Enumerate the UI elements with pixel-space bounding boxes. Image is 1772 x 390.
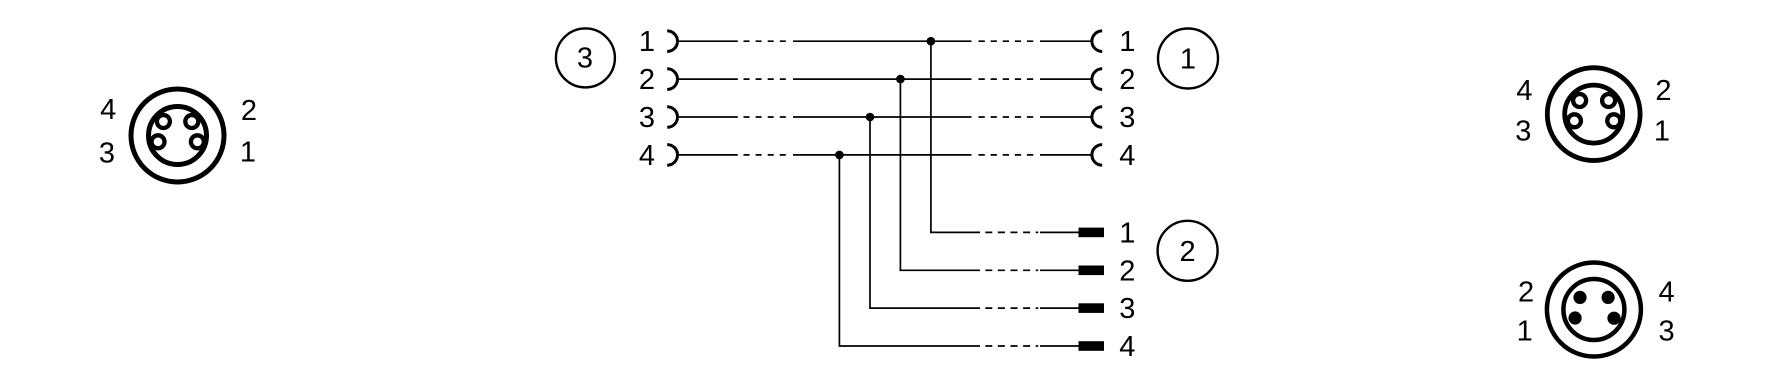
- end 3 pin 2 socket contact arc: [667, 69, 677, 90]
- wire 3.3: solid segment from contact: [678, 116, 738, 118]
- end 1 circled label: [1158, 29, 1218, 89]
- svg-text:2: 2: [1119, 64, 1135, 96]
- junction node wire 2 branch: [896, 75, 905, 84]
- svg-text:3: 3: [1515, 115, 1531, 147]
- wire 3.4: cable break dashed segment (left): [744, 154, 786, 156]
- connector 3 pin hole 4: [157, 115, 170, 128]
- wire 3.1: main solid segment: [793, 40, 972, 42]
- wire 3.4: cable break dashed segment (right): [979, 154, 1035, 156]
- connector 2 pin 1 (male contact): [1569, 311, 1582, 324]
- wire 3.4: main solid segment: [793, 154, 972, 156]
- wire 3.3: cable break dashed segment (right): [979, 116, 1035, 118]
- svg-text:2: 2: [241, 95, 257, 127]
- svg-text:4: 4: [639, 140, 655, 172]
- connector 1 face view outer ring: [1547, 68, 1640, 161]
- svg-text:2: 2: [1180, 236, 1196, 268]
- junction node wire 1 branch: [927, 37, 936, 46]
- end 2 pin 2 terminal block: [1079, 266, 1105, 276]
- svg-text:3: 3: [1119, 102, 1135, 134]
- svg-text:1: 1: [1119, 217, 1135, 249]
- end 3 circled label: [556, 28, 615, 87]
- junction node wire 4 branch: [835, 151, 844, 160]
- end 2 pin 3 terminal block: [1079, 303, 1105, 313]
- connector 1 pin hole 1: [1607, 114, 1620, 127]
- svg-text:1: 1: [1517, 316, 1533, 348]
- end 1 pin 4 socket contact arc: [1092, 145, 1102, 166]
- end 3 pin 1 socket contact arc: [667, 31, 677, 52]
- wire branch 1: vertical segment: [930, 41, 932, 232]
- end 1 pin 3 socket contact arc: [1092, 107, 1102, 128]
- svg-text:1: 1: [240, 137, 256, 169]
- connector 2 face view inner ring: [1563, 279, 1624, 340]
- wire branch 1: solid segment to terminal: [1040, 231, 1079, 233]
- wire 3.4: solid segment to connector 1 contact: [1040, 154, 1091, 156]
- wire branch 4: vertical segment: [838, 155, 840, 346]
- wire branch 1: lower horizontal solid segment: [930, 231, 980, 233]
- connector 2 pin 4 (male contact): [1602, 291, 1615, 304]
- wire 3.2: solid segment from contact: [678, 78, 738, 80]
- wire 3.1: cable break dashed segment (left): [744, 40, 786, 42]
- wire branch 2: cable break dashed segment: [985, 269, 1038, 271]
- wire 3.4: solid segment from contact: [678, 154, 738, 156]
- wire branch 3: cable break dashed segment: [985, 307, 1038, 309]
- wire 3.3: solid segment to connector 1 contact: [1040, 116, 1091, 118]
- wire branch 1: cable break dashed segment: [985, 231, 1038, 233]
- svg-text:4: 4: [1516, 75, 1532, 107]
- wire 3.2: cable break dashed segment (right): [979, 78, 1035, 80]
- connector 3 face view outer ring: [131, 89, 224, 182]
- svg-text:3: 3: [639, 102, 655, 134]
- connector 1 face view inner ring: [1565, 85, 1623, 143]
- wire branch 2: solid segment to terminal: [1040, 269, 1079, 271]
- junction node wire 3 branch: [866, 113, 875, 122]
- wire branch 2: vertical segment: [899, 79, 901, 270]
- wire 3.2: solid segment to connector 1 contact: [1040, 78, 1091, 80]
- wire 3.1: solid segment from contact: [678, 40, 738, 42]
- svg-text:4: 4: [100, 94, 116, 126]
- wire 3.1: solid segment to connector 1 contact: [1040, 40, 1091, 42]
- svg-text:3: 3: [577, 43, 593, 75]
- wire 3.3: main solid segment: [793, 116, 972, 118]
- connector 3 pin hole 2: [185, 115, 198, 128]
- wire branch 3: vertical segment: [869, 117, 871, 308]
- connector 3 pin hole 1: [191, 135, 204, 148]
- connector 1 pin hole 3: [1568, 114, 1581, 127]
- connector 1 pin hole 2: [1602, 94, 1615, 107]
- end 1 pin 1 socket contact arc: [1092, 31, 1102, 52]
- wire branch 4: lower horizontal solid segment: [839, 345, 980, 347]
- svg-text:1: 1: [1119, 26, 1135, 58]
- svg-text:1: 1: [1180, 44, 1196, 76]
- svg-text:3: 3: [1119, 293, 1135, 325]
- svg-text:2: 2: [1119, 255, 1135, 287]
- end 1 pin 2 socket contact arc: [1092, 69, 1102, 90]
- wire 3.2: cable break dashed segment (left): [744, 78, 786, 80]
- svg-text:2: 2: [639, 64, 655, 96]
- connector 1 pin hole 4: [1573, 94, 1586, 107]
- wire branch 3: lower horizontal solid segment: [869, 307, 980, 309]
- end 2 pin 4 terminal block: [1079, 341, 1105, 351]
- end 2 pin 1 terminal block: [1079, 228, 1105, 238]
- svg-text:1: 1: [639, 26, 655, 58]
- svg-text:3: 3: [1659, 316, 1675, 348]
- wire branch 4: cable break dashed segment: [985, 345, 1038, 347]
- svg-text:1: 1: [1654, 116, 1670, 148]
- svg-text:2: 2: [1518, 277, 1534, 309]
- connector 2 face view outer ring: [1547, 263, 1641, 357]
- end 3 pin 3 socket contact arc: [667, 107, 677, 128]
- end 2 circled label: [1158, 221, 1218, 281]
- wire 3.2: main solid segment: [793, 78, 972, 80]
- connector 3 pin hole 3: [152, 135, 165, 148]
- svg-text:4: 4: [1659, 277, 1675, 309]
- wire branch 4: solid segment to terminal: [1040, 345, 1079, 347]
- svg-text:4: 4: [1119, 140, 1135, 172]
- connector 2 pin 2 (male contact): [1573, 291, 1586, 304]
- wire branch 3: solid segment to terminal: [1040, 307, 1079, 309]
- svg-text:4: 4: [1119, 331, 1135, 363]
- wire branch 2: lower horizontal solid segment: [900, 269, 980, 271]
- connector 3 face view inner ring: [149, 107, 207, 165]
- wire 3.3: cable break dashed segment (left): [744, 116, 786, 118]
- connector 2 pin 3 (male contact): [1607, 312, 1620, 325]
- svg-text:3: 3: [99, 138, 115, 170]
- wire 3.1: cable break dashed segment (right): [979, 40, 1035, 42]
- svg-text:2: 2: [1655, 75, 1671, 107]
- end 3 pin 4 socket contact arc: [667, 145, 677, 166]
